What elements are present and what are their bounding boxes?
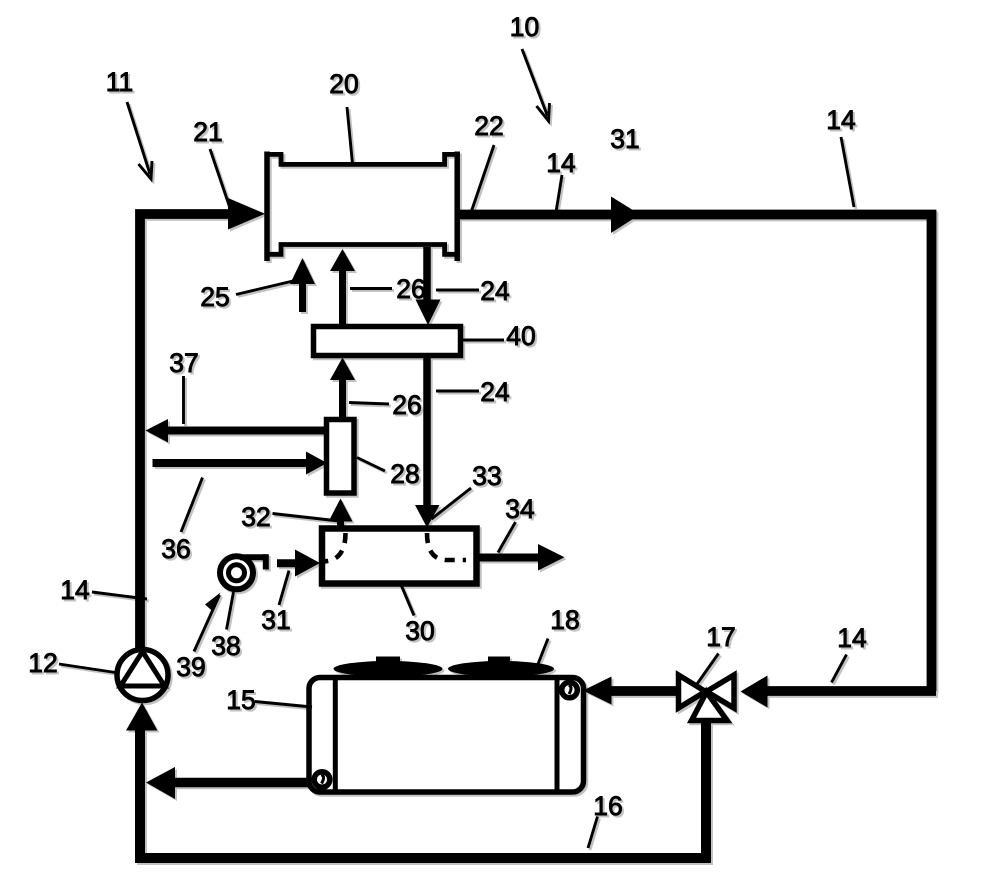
svg-text:18: 18 — [550, 605, 579, 635]
leader 14 top-middle — [556, 175, 562, 212]
arrow 32 shaft — [337, 520, 344, 530]
svg-text:26: 26 — [392, 390, 421, 420]
svg-text:39: 39 — [176, 652, 205, 682]
svg-text:38: 38 — [211, 631, 240, 661]
leader 15 — [255, 702, 312, 708]
svg-text:31: 31 — [261, 605, 290, 635]
arrow 34 shaft out of box 30 — [477, 554, 541, 562]
pump 12 circle — [117, 650, 168, 701]
blower 38 volute duct top bar — [240, 554, 266, 560]
valve 17 right triangle — [707, 675, 735, 708]
svg-text:36: 36 — [161, 534, 190, 564]
flow arrowhead into left pipe from radiator — [146, 767, 175, 799]
svg-text:12: 12 — [28, 648, 57, 678]
wire: pipe from valve 17 to radiator top port — [611, 686, 679, 696]
arrow 26 lower shaft — [339, 378, 346, 420]
arrow 26 upper head — [330, 249, 355, 271]
fan 18 ellipse right — [448, 661, 554, 677]
leader 31 lower — [279, 571, 289, 606]
svg-text:11: 11 — [106, 67, 134, 97]
box 40 — [314, 327, 461, 356]
wire: top-left pipe 14 horizontal and left vertical pipe — [140, 214, 232, 650]
leader 30 — [401, 584, 415, 616]
flow arrowhead into radiator right port — [583, 677, 612, 705]
fan 18 motor right — [488, 657, 510, 667]
leader 17 — [695, 654, 719, 688]
svg-text:20: 20 — [329, 69, 358, 99]
fan 18 ellipse left — [334, 661, 443, 677]
heat exchanger 20 top wall — [265, 154, 460, 164]
svg-text:14: 14 — [826, 105, 855, 135]
svg-text:24: 24 — [480, 377, 509, 407]
svg-text:14: 14 — [546, 148, 575, 178]
arrow 36 head pointing right — [306, 452, 327, 475]
wire: pipe from radiator bottom port to left pipe — [172, 778, 313, 788]
valve 17 left triangle — [679, 675, 706, 708]
leader 24 lower — [436, 390, 479, 393]
radiator bottom-left port swirl — [314, 772, 330, 788]
leader line for 11 with arrowhead — [127, 102, 150, 174]
arrow 37 shaft — [168, 427, 327, 435]
leader line for 10 with arrowhead — [522, 49, 548, 116]
pipe 24 upper shaft — [423, 247, 431, 302]
leader 21 — [210, 149, 231, 211]
flow arrowhead into valve 17 — [741, 676, 768, 708]
svg-text:28: 28 — [390, 459, 419, 489]
arrow 32 head up — [329, 499, 353, 522]
svg-text:33: 33 — [472, 461, 501, 491]
leader 33 — [432, 488, 472, 519]
svg-text:16: 16 — [593, 791, 622, 821]
pipe 24 lower arrowhead down — [415, 505, 440, 528]
dashed bend right inside box 30 — [427, 533, 466, 560]
leader 25 — [236, 281, 295, 295]
pipe 31 from blower shaft — [277, 559, 299, 567]
box 30 — [322, 529, 477, 584]
radiator 15 inner right line — [555, 680, 560, 790]
svg-text:24: 24 — [480, 276, 509, 306]
valve/regulator 28 — [327, 420, 355, 494]
leader 26 upper — [350, 287, 392, 290]
svg-text:40: 40 — [506, 321, 535, 351]
svg-text:32: 32 — [241, 502, 270, 532]
valve 17 bottom triangle — [692, 692, 728, 721]
heat exchanger 20 right flange — [454, 152, 460, 262]
svg-text:26: 26 — [396, 274, 425, 304]
leader 40 — [462, 339, 504, 342]
leader 16 — [588, 817, 598, 849]
arrow 25 shaft — [299, 282, 306, 312]
leader 14 top-right — [841, 137, 854, 207]
svg-text:17: 17 — [706, 622, 735, 652]
leader 38 — [227, 592, 234, 630]
svg-text:25: 25 — [200, 282, 229, 312]
leader 12 — [59, 664, 116, 673]
leader 36 — [181, 478, 203, 533]
svg-text:30: 30 — [405, 616, 434, 646]
dashed bend left inside box 30 — [322, 533, 346, 562]
heat exchanger 20 bottom wall — [265, 245, 460, 255]
svg-text:34: 34 — [505, 494, 534, 524]
pipe 24 upper arrowhead down — [416, 300, 441, 326]
node 21 inlet arrowhead into heat exchanger — [228, 198, 265, 230]
leader 34 — [498, 522, 516, 553]
arrow 25 head — [290, 258, 315, 284]
arrow 31 head into box 30 — [295, 550, 320, 577]
svg-text:14: 14 — [837, 623, 866, 653]
leader 28 — [357, 458, 385, 472]
svg-text:10: 10 — [510, 12, 539, 42]
blower 38 inner circle — [229, 565, 245, 581]
arrow 26 lower head — [330, 358, 355, 381]
pump 12 triangle — [121, 652, 165, 687]
pipe 24 lower shaft — [423, 356, 431, 508]
flow arrowhead 31 on top pipe — [611, 197, 640, 234]
leader 39 with arrowhead — [194, 595, 220, 652]
arrow 34 head — [538, 544, 565, 571]
svg-text:15: 15 — [226, 685, 255, 715]
radiator top-right port swirl — [562, 682, 578, 698]
wire: outlet pipe 22/31 from heat exchanger right around to valve level — [457, 215, 932, 692]
wire: pipe 16 down from valve to bottom run — [701, 718, 711, 863]
blower 38 outer circle — [220, 556, 253, 589]
leader 26 lower — [349, 403, 389, 405]
arrow 26 upper shaft — [339, 269, 346, 326]
svg-text:31: 31 — [610, 124, 639, 154]
leader 37 — [182, 376, 185, 424]
leader 32 — [273, 514, 340, 522]
leader 18 — [535, 639, 549, 674]
svg-text:22: 22 — [474, 111, 503, 141]
svg-text:21: 21 — [193, 117, 222, 147]
leader 22 — [472, 145, 495, 211]
arrow 36 shaft — [153, 459, 309, 467]
leader 20 — [347, 107, 353, 164]
leader 24 upper — [436, 289, 479, 292]
svg-text:37: 37 — [169, 348, 198, 378]
flow arrowhead up into pump 12 — [126, 703, 158, 731]
leader 14 left — [92, 592, 147, 599]
arrow 37 head pointing left — [146, 419, 169, 443]
wire: pipe from right vertical to valve 17 — [767, 686, 936, 696]
fan 18 motor left — [376, 657, 400, 667]
radiator 15 inner left line — [333, 680, 338, 790]
wire: bottom pipe 16 and pipe below pump 12 — [140, 729, 706, 858]
blower 38 volute duct right stub — [263, 554, 269, 569]
svg-text:14: 14 — [60, 575, 89, 605]
leader 14 bottom-right — [832, 655, 847, 683]
heat exchanger 20 left flange — [264, 152, 270, 262]
radiator 15 body — [309, 678, 584, 793]
